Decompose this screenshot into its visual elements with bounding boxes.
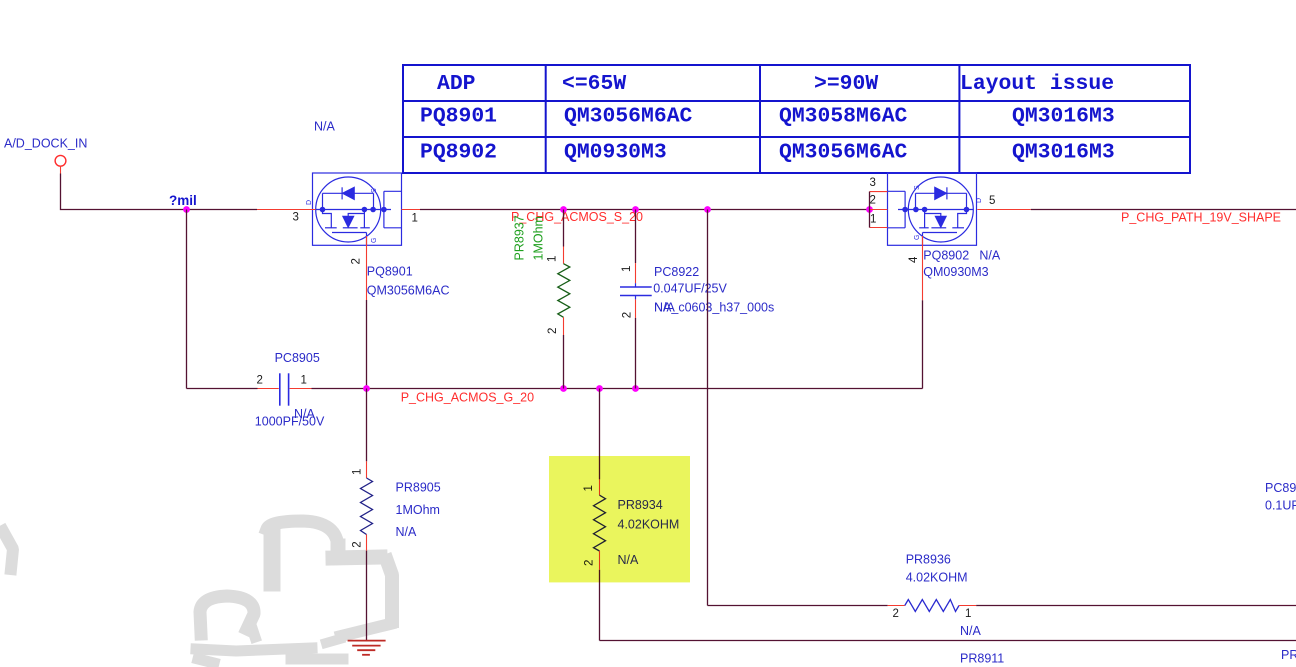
PQ8901 pin 3 stub — [257, 209, 316, 211]
svg-text:A/D_DOCK_IN: A/D_DOCK_IN — [4, 137, 87, 151]
resistor PR8934 — [583, 389, 679, 641]
svg-text:N/A: N/A — [979, 249, 1001, 263]
svg-text:ADP: ADP — [437, 72, 476, 96]
svg-text:3: 3 — [293, 212, 299, 224]
PQ8902 pin stubs 3,2,1 — [870, 192, 888, 228]
wire x708 vertical — [707, 210, 709, 606]
table text row1 — [437, 72, 1114, 96]
svg-text:1: 1 — [301, 374, 307, 386]
PQ8902 pin tie vertical — [869, 192, 871, 228]
junction G rail at x367 — [363, 385, 370, 392]
svg-text:G: G — [371, 238, 378, 243]
svg-text:N/A: N/A — [960, 624, 982, 638]
PQ8901 pin 2 stub — [366, 236, 368, 300]
svg-text:<=65W: <=65W — [562, 72, 626, 96]
svg-text:PQ8901: PQ8901 — [367, 265, 413, 279]
svg-text:QM3056M6AC: QM3056M6AC — [779, 141, 908, 165]
svg-text:PR8905: PR8905 — [396, 481, 441, 495]
svg-text:Layout issue: Layout issue — [960, 72, 1114, 96]
svg-text:PR8936: PR8936 — [906, 552, 951, 566]
capacitor PC8922 — [620, 210, 774, 389]
wire PQ8902 pin5 to right edge — [1031, 209, 1296, 211]
PQ8902 pin 5 stub — [977, 209, 1031, 211]
svg-text:N/A: N/A — [654, 301, 676, 315]
svg-text:S: S — [371, 188, 378, 193]
port A/D_DOCK_IN — [4, 137, 87, 174]
svg-text:2: 2 — [351, 258, 363, 264]
svg-text:PR8911: PR8911 — [960, 651, 1004, 665]
svg-text:0.047UF/25V: 0.047UF/25V — [653, 282, 727, 296]
svg-text:PR89: PR89 — [1281, 648, 1296, 662]
transistor PQ8901 — [313, 173, 402, 245]
svg-text:PQ8902: PQ8902 — [420, 141, 497, 165]
right edge texts PC89 0.1UF PR89 — [1265, 481, 1296, 662]
wire PQ8901 pin1 to PQ8902 — [420, 209, 870, 211]
svg-text:PC8922: PC8922 — [654, 265, 699, 279]
svg-text:PC8905: PC8905 — [275, 351, 320, 365]
wire y641 horizontal from PR8934 to right edge — [600, 640, 1296, 642]
resistor PR8936 — [888, 552, 1296, 665]
svg-text:5: 5 — [989, 195, 995, 207]
table text row2 — [420, 105, 1115, 129]
transistor PQ8902 (mirrored) — [888, 173, 977, 245]
svg-text:P_CHG_PATH_19V_SHAPE: P_CHG_PATH_19V_SHAPE — [1121, 211, 1281, 225]
svg-text:QM3016M3: QM3016M3 — [1012, 141, 1115, 165]
svg-text:4: 4 — [908, 256, 920, 263]
svg-text:QM3016M3: QM3016M3 — [1012, 105, 1115, 129]
svg-text:2: 2 — [622, 312, 634, 318]
svg-text:N/A: N/A — [294, 407, 316, 421]
svg-text:QM3056M6AC: QM3056M6AC — [564, 105, 693, 129]
PQ8901 pin 1 stub — [402, 209, 421, 211]
svg-text:4.02KOHM: 4.02KOHM — [906, 571, 968, 585]
svg-text:1: 1 — [352, 469, 364, 475]
svg-text:1: 1 — [621, 266, 633, 272]
svg-text:P_CHG_ACMOS_G_20: P_CHG_ACMOS_G_20 — [401, 390, 534, 404]
svg-text:QM0930M3: QM0930M3 — [564, 141, 667, 165]
G_20 rail — [187, 388, 258, 390]
highlight box PR8934 — [549, 456, 690, 582]
junction at ?mil — [183, 206, 190, 213]
wire ?mil down to G_20 rail — [186, 210, 188, 389]
PQ8902 pin 4 stub — [922, 236, 924, 300]
svg-text:1: 1 — [965, 608, 971, 620]
svg-text:2: 2 — [352, 541, 364, 547]
watermark gray blobs — [3, 521, 392, 663]
junction top wire at PR8937 — [560, 206, 567, 213]
svg-text:1MOhm: 1MOhm — [532, 216, 546, 260]
svg-text:D: D — [306, 200, 313, 205]
wire from port to PQ8901 pin3 — [61, 174, 258, 210]
junction G rail at PR8934 — [596, 385, 603, 392]
svg-text:2: 2 — [257, 374, 263, 386]
junction at PQ8902 pins — [866, 206, 873, 213]
junction G rail at PR8937 — [560, 385, 567, 392]
svg-text:0.1UF: 0.1UF — [1265, 498, 1296, 512]
junction top wire at x708 — [704, 206, 711, 213]
junction top wire at PC8922 — [632, 206, 639, 213]
svg-text:QM0930M3: QM0930M3 — [923, 265, 988, 279]
junction G rail at PC8922 — [632, 385, 639, 392]
svg-text:2: 2 — [870, 195, 876, 207]
svg-text:1: 1 — [547, 256, 559, 262]
resistor PR8937 — [512, 210, 570, 389]
PQ8902 pin labels — [870, 177, 996, 263]
svg-text:PR8937: PR8937 — [512, 215, 526, 260]
svg-text:PC89: PC89 — [1265, 481, 1296, 495]
svg-text:PQ8902: PQ8902 — [923, 249, 969, 263]
svg-text:PQ8901: PQ8901 — [420, 105, 497, 129]
svg-text:>=90W: >=90W — [814, 72, 878, 96]
svg-text:D: D — [976, 198, 983, 203]
svg-text:1: 1 — [870, 214, 876, 226]
svg-text:N/A: N/A — [314, 120, 336, 134]
svg-text:?mil: ?mil — [169, 193, 197, 208]
table text row3 — [420, 141, 1115, 165]
wire y605 horizontal to PR8936 — [708, 605, 888, 607]
svg-text:N/A: N/A — [396, 525, 418, 539]
resistor PR8905 — [352, 389, 441, 641]
svg-text:1: 1 — [412, 213, 418, 225]
svg-text:2: 2 — [893, 608, 899, 620]
svg-text:G: G — [914, 235, 921, 240]
PQ8901 pin labels — [293, 188, 418, 265]
svg-text:S: S — [914, 185, 921, 190]
svg-text:QM3056M6AC: QM3056M6AC — [367, 284, 450, 298]
svg-text:QM3058M6AC: QM3058M6AC — [779, 105, 908, 129]
table adapter comparison — [403, 65, 1190, 173]
svg-text:3: 3 — [870, 177, 876, 189]
ground — [348, 641, 386, 655]
wire PQ8902 gate down to G rail — [922, 300, 924, 388]
capacitor PC8905 — [255, 351, 325, 429]
wire PQ8901 gate down — [366, 300, 368, 389]
svg-text:2: 2 — [547, 328, 559, 334]
svg-text:1MOhm: 1MOhm — [396, 503, 440, 517]
